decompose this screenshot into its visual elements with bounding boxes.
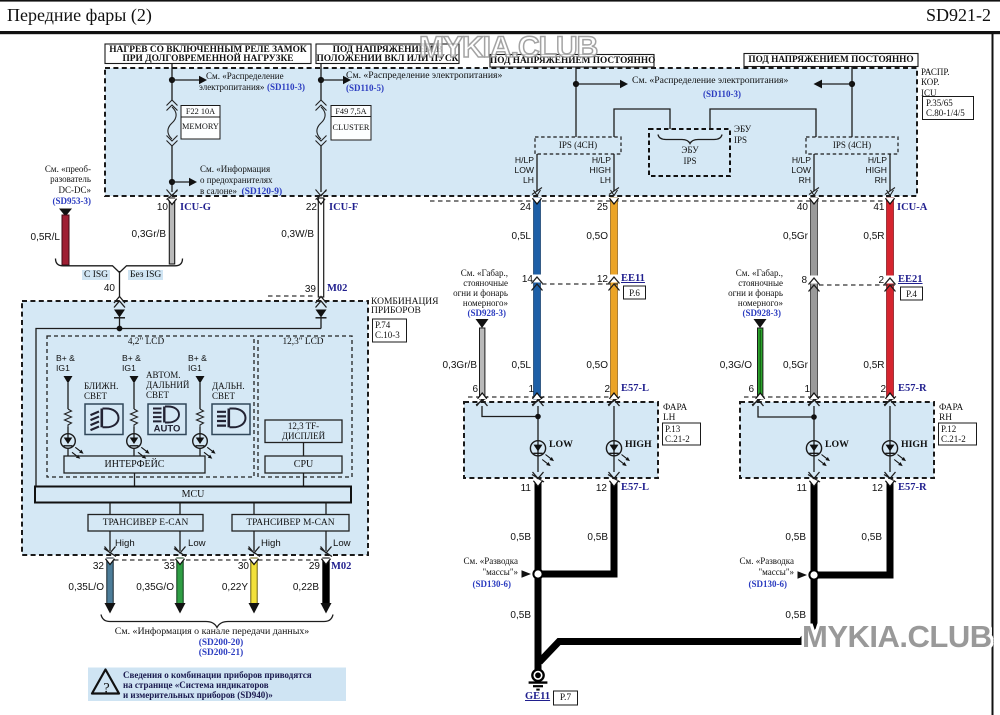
pin 24 [520,203,531,213]
LED indicator column 3 [193,434,217,461]
svg-text:?: ? [103,681,109,697]
pin 12 E57-L [596,484,607,494]
internal supply bus in cluster [36,329,321,487]
wire 0,5Gr gray (pin 40 to E57-R pin 1) [811,198,818,399]
label ЭБУ IPS beside box [734,124,751,145]
resistor column 1 [65,409,72,427]
ref габариты RH SD928-3 [728,268,783,308]
label P.13 C.21-2 [665,424,690,445]
IPS (4CH) RH box [806,137,898,154]
low beam icon box [85,404,123,435]
label CPU [294,460,313,470]
pin 41 [873,203,884,213]
wire arrow to SD110-3 reference [172,79,200,81]
wire label 0,5B LH high [587,533,608,543]
node junction on F49 feed [318,77,324,83]
fuse F22 10A label [181,107,220,117]
ref информация о канале передачи данных [115,627,309,637]
wire label 0,3G/O lower [720,361,752,371]
E-CAN transceiver box [88,515,203,532]
P.7 reference box [554,691,578,705]
pin 29 [309,562,320,572]
wire IPS LH to ECU IPS [614,109,670,137]
ICU power distribution box (blue dashed) [105,68,917,196]
H/LP LOW RH output wire pin 40 [813,154,815,191]
pin 22 ICU-F crossing mark [316,190,327,200]
pin 10 ICU-G crossing mark [167,190,178,200]
label РАСПР. КОР. ICU [921,67,950,98]
connector M02 dashed line bottom [106,559,330,561]
wire label 0,22Y [222,583,248,593]
label ФАРА RH [939,403,963,424]
wire CPU to MCU [303,473,305,486]
watermark bottom right [802,621,992,652]
connector ICU-F [329,203,358,213]
EE21 P.4 reference box [901,287,923,300]
ground splice junction LH [533,569,542,578]
ground symbol GE11 [529,670,548,690]
connector ICU-G [180,203,211,213]
label H/LP HIGH LH [590,155,611,185]
label P.35/65 C.80-1/4/5 [926,98,965,119]
ground splice junction RH [809,570,818,579]
wire 0,5O orange (pin 25 to E57-L pin 2) [611,198,618,399]
pin 6 E57-L [472,385,478,395]
label АВТОМ. ДАЛЬНИЙ СВЕТ [146,371,189,400]
wire column 2 [133,383,135,456]
arrow down CAN Low [175,603,186,614]
wire label 0,5Gr upper [783,232,808,242]
page title [7,10,152,20]
label MCU [182,490,205,500]
connector ICU-A dashed line [430,200,893,202]
connector E57-L dashed line [468,396,618,398]
pin 8 [801,276,807,286]
brace inside ECU IPS box [658,135,722,144]
exit chevrons E-CAN High / Low [104,547,116,557]
ref SD200-21 [199,648,243,658]
P.35/65 C.80 reference box [923,97,974,120]
label High (E-CAN) [115,539,135,549]
label ПОД НАПРЯЖЕНИЕМ ПОСТОЯННО 1 [490,56,654,66]
resistor column 3 [197,409,204,427]
fuse F49 symbol [316,100,327,146]
pin 12 EE11 [597,275,608,285]
IPS (4CH) LH box [535,137,621,154]
INTERFACE box [64,456,205,473]
label 12,3" LCD [283,337,324,347]
node junction constant power RH [849,81,855,87]
label 12,3 TF-ДИСПЛЕЙ [282,421,325,442]
arrow down M-CAN High [249,603,260,614]
B+ IG1 feed arrow column 1 [64,376,73,384]
CPU box [265,456,342,473]
thick ground wire 0,5B LH HIGH (pin 12 down and left) [538,481,618,574]
wire label 0,5L upper [512,232,531,242]
ref DC-DC converter [45,164,91,195]
fuse F22 symbol [167,100,178,146]
page right border [992,31,994,715]
connector E57-L bottom [621,483,649,493]
thick ground wire 0,5B RH LOW (pin 11 down) [811,481,818,629]
label P.6 [629,288,640,298]
node junction constant power LH [573,81,579,87]
thick ground bus wire to GE11 [540,625,815,662]
label ТРАНСИВЕР M-CAN [246,518,334,528]
wire 0,3Gr/B gray (park lights to E57-L pin 6) [480,328,485,399]
arrow down M-CAN Low [321,603,332,614]
LED indicator column 2 [127,434,151,461]
label High (M-CAN) [261,539,281,549]
C ISG / Без ISG merge hooks [56,259,120,273]
pin 40 entry chevron into cluster [114,297,125,308]
connector EE21 crossing on gray wire [809,276,820,292]
label LOW LH [549,440,573,450]
12.3 TFT display box [265,420,342,443]
label КОМБИНАЦИЯ ПРИБОРОВ [371,298,439,318]
P.74 C.10-3 reference box [373,319,407,342]
auto high beam icon box [148,404,186,435]
pin 39 entry chevron into cluster [316,297,327,308]
ref см. распределение электропитания SD110-3 (left) [206,71,284,81]
connector EE11 crossing on blue wire [532,275,543,291]
P.12 C.21-2 reference box RH [939,423,977,445]
label B+ & IG1 col 3 [188,354,207,373]
arrow to SD120-9 reference [172,181,190,183]
pin 2 E57-R [880,385,886,395]
wire label 0,5Gr lower [783,361,808,371]
M-CAN transceiver box [232,515,349,532]
wire INTERFACE to MCU [134,473,136,486]
fuse F49 7,5A label [331,107,371,117]
pin 2 EE21 [878,276,884,286]
ref SD200-20 [199,638,243,648]
wire 0,22B (M-CAN Low) [323,558,329,604]
wire label 0,5R lower [863,361,884,371]
node junction on F22 feed [169,77,175,83]
wire from ПОСТОЯННО box 2 down to IPS RH [851,67,853,137]
connector ICU-A [897,203,927,213]
ref разводка массы RH SD130-6 [740,556,795,577]
label H/LP HIGH RH [866,155,887,185]
label box ПОД НАПРЯЖЕНИЕМ ПОСТОЯННО 1 [490,55,654,68]
label ПОД НАПРЯЖЕНИЕМ В ПОЛОЖЕНИИ ВКЛ ИЛИ ПУСК [316,46,459,65]
wire ECU IPS to IPS RH [710,109,816,137]
ref см. распределение электропитания SD110-3 (right) [632,76,788,86]
label P.7 [560,693,571,703]
watermark top [419,33,597,63]
pin 12 E57-R [872,484,883,494]
wire 0,3W/B white (ICU-F pin 22 to M02 pin 39) [318,198,323,297]
EE11 P.6 reference box [624,286,646,299]
ref разводка массы LH SD130-6 [464,556,519,577]
label H/LP LOW LH [514,155,534,185]
connector EE11 crossing on orange wire [609,275,620,291]
arrow from SD928-3 into LH park lamp wire [476,319,489,328]
thick ground wire 0,5B RH HIGH (pin 12 down and left) [814,481,894,575]
pin 11 E57-R [797,484,807,494]
B+ IG1 feed arrow column 3 [196,376,205,384]
DC-DC arrow into red wire [59,209,72,217]
wire fuse F49 to pin 22 [320,146,322,192]
header rule [0,31,1000,34]
ref см. информация о предохранителях SD120-9 [200,164,282,198]
connector EE11 dashed line [542,283,618,285]
fuse CLUSTER label [331,123,371,133]
wire label 0,5B LH ground [510,611,531,621]
label P.12 C.21-2 [941,424,966,445]
wires MCU to M-CAN transceiver [254,503,326,515]
arrow from SD130-6 into LH splice [522,570,532,578]
connector EE21 crossing on red wire [885,276,896,292]
pin 22 [306,203,317,213]
pin 1 E57-R [804,385,810,395]
pin 1 E57-L [528,385,534,395]
wire from ПОД НАПРЯЖЕНИЕМ (ВКЛ ИЛИ ПУСК) box down to fuse F49 [320,64,322,101]
instrument cluster box (blue dashed) [22,301,368,555]
label HIGH LH [625,440,652,450]
ref габариты LH SD928-3 [453,268,508,308]
wire label 0,5R upper [863,232,884,242]
connector M02 bottom [331,562,351,572]
ground name GE11 [525,692,550,702]
pin 25 [597,203,608,213]
label B+ & IG1 col 2 [122,354,141,373]
label box ПОД НАПРЯЖЕНИЕМ ПОСТОЯННО 2 [744,54,918,67]
pin 40 cluster [104,284,115,294]
wire 0,22Y (M-CAN High) [251,558,257,604]
label IPS (4CH) RH [833,140,871,150]
wire label 0,3Gr/B lower [443,361,477,371]
connector M02 dashed line at pin 39 [268,295,316,297]
wire label 0,5B RH low [785,533,806,543]
wire from НАГРЕВ box down to fuse F22 [171,64,173,101]
MCU box [35,487,351,503]
E57-R entry chevrons pins 6,1,2 [752,397,764,407]
wire fuse F22 to SD120-9 node [171,146,173,192]
label ИНТЕРФЕЙС [105,460,165,470]
exit chevrons M-CAN High / Low [248,547,260,557]
wire column 1 [67,383,69,456]
wire TFT to CPU [303,443,305,457]
wire arrow to SD110-5 reference [321,79,344,81]
connector notches on wire ends [105,198,894,565]
wire 0,5L blue (pin 24 to E57-L pin 1) [534,198,541,399]
wire label 0,35G/O [136,583,174,593]
pin 11 E57-L [521,484,531,494]
wire 0,3Gr/B gray (ICU-G pin 10 to ISG merge) [169,198,174,264]
wire from ПОСТОЯННО box 1 down to IPS LH [575,67,577,137]
pin 39 [305,285,316,295]
connector EE21 [898,275,923,285]
arrow right to SD110-3 reference [576,83,621,85]
diode symbol at cluster pin 39 [316,310,327,318]
pin 33 [164,562,175,572]
diode symbol at cluster pin 40 [114,310,125,318]
page number SD921-2 [926,10,991,20]
wire 0,35L/O (E-CAN High) [107,558,113,604]
connector M02 top [327,284,347,294]
label БЛИЖН. СВЕТ [84,382,118,402]
wire 0,5R red (pin 41 to E57-R pin 2) [887,198,894,399]
node junction supply bus [117,326,123,332]
pin 10 [157,203,168,213]
label Без ISG [128,270,163,280]
wire label 0,5L lower [512,361,531,371]
wire label 0,3W/B [281,230,314,240]
wire 0,35G/O (E-CAN Low) [177,558,183,604]
connector E57-R bottom [898,483,927,493]
wire 0,3G/O green (park lights to E57-R pin 6) [758,328,763,399]
pin 32 [93,562,104,572]
wire label 0,5B LH low [510,533,531,543]
label IPS (4CH) LH [559,140,597,150]
wire label 0,22B [293,583,319,593]
fuse F22 label box [181,106,220,140]
fuse MEMORY label [181,122,220,132]
LED indicator column 1 [61,434,85,461]
brace under CAN wires [101,615,333,628]
headlamp RH box (blue dashed) [740,402,934,478]
wire label 0,5B RH high [861,533,882,543]
arrow from SD130-6 into RH splice [798,571,808,579]
label ТРАНСИВЕР E-CAN [103,518,189,528]
page top border line [0,0,1000,2]
LED bulb HIGH LH [606,441,631,468]
label C ISG [82,270,110,280]
H/LP HIGH RH output wire pin 41 [889,154,891,191]
label box НАГРЕВ [105,44,311,64]
wire merged ISG branch to pin 40 [119,271,121,297]
label ПОД НАПРЯЖЕНИЕМ ПОСТОЯННО 2 [744,55,918,65]
label Low (E-CAN) [188,539,206,549]
arrow down CAN High [105,603,116,614]
wire label 0,3Gr/B [132,230,166,240]
E57-L exit chevrons pins 11,12 [532,472,544,482]
connector EE21 dashed line [819,284,895,286]
4.2 inch LCD dashed box [47,336,254,477]
connector E57-R dashed line [744,396,894,398]
P.13 C.21-2 reference box LH [663,423,701,445]
E57-R exit chevrons pins 11,12 [808,472,820,482]
pin 30 [238,562,249,572]
note box background [88,668,346,702]
label H/LP LOW RH [791,155,811,185]
H/LP HIGH LH output wire pin 25 [613,154,615,191]
B+ IG1 feed arrow column 2 [130,376,139,384]
ECU IPS box [649,129,730,176]
node junction on SD120-9 branch [169,179,175,185]
arrow left to SD110-3 reference [821,83,852,85]
thick ground wire 0,5B LH LOW (pin 11 down) [535,481,542,670]
label HIGH RH [901,440,928,450]
label НАГРЕВ СО ВКЛЮЧЕННЫМ РЕЛЕ ЗАМОК [105,46,311,65]
LED bulb HIGH RH [882,441,907,468]
ref см. распределение электропитания SD110-5 [346,71,502,81]
wire label 0,5O lower [586,361,608,371]
wire column 3 [199,383,201,456]
LH node junction [535,414,541,420]
wires transceivers to connector M02 [110,531,326,551]
wire label 0,5B RH ground [785,611,806,621]
12.3 inch LCD dashed box [258,336,352,477]
note text [123,670,312,701]
warning triangle with question mark [92,670,119,697]
label ФАРА LH [663,403,687,424]
connector E57-L top [621,384,649,394]
label ЭБУ IPS inside box [681,145,698,166]
connector E57-R top [898,384,927,394]
LED bulb LOW LH [530,441,555,468]
wire label 0,35L/O [68,583,104,593]
pin 6 E57-R [748,385,754,395]
label box ПОД НАПРЯЖЕНИЕМ В ПОЛОЖЕНИИ [316,44,459,64]
pin 2 E57-L [604,385,610,395]
wire label 0,5O upper [586,232,608,242]
label P.4 [906,289,917,299]
label ДАЛЬН. СВЕТ [212,382,245,402]
LH lamp internal wiring [482,406,614,472]
arrow from SD928-3 into RH park lamp wire [754,319,767,328]
H/LP LOW LH output wire pin 24 [536,154,538,191]
label 4,2" LCD [128,337,164,347]
RH node junction [811,414,817,420]
wire label 0,5R/L [31,233,60,243]
label B+ & IG1 col 1 [56,354,75,373]
RH lamp internal wiring [758,406,890,472]
wires MCU to E-CAN transceiver [110,503,180,515]
fuse F49 label box [331,106,371,141]
LED bulb LOW RH [806,441,831,468]
resistor column 2 [131,409,138,427]
pin 40 (ICU-A) [797,203,808,213]
pin 14 [522,275,533,285]
connector EE11 [621,274,645,284]
E57-L entry chevrons pins 6,1,2 [476,397,488,407]
headlamp LH box (blue dashed) [464,402,658,478]
label P.74 C.10-3 [375,320,400,341]
label Low (M-CAN) [333,539,351,549]
wire 0,5R/L red (DC-DC converter) [62,215,69,265]
svg-text:AUTO: AUTO [154,424,181,435]
high beam icon box [212,404,250,435]
label LOW RH [825,440,849,450]
